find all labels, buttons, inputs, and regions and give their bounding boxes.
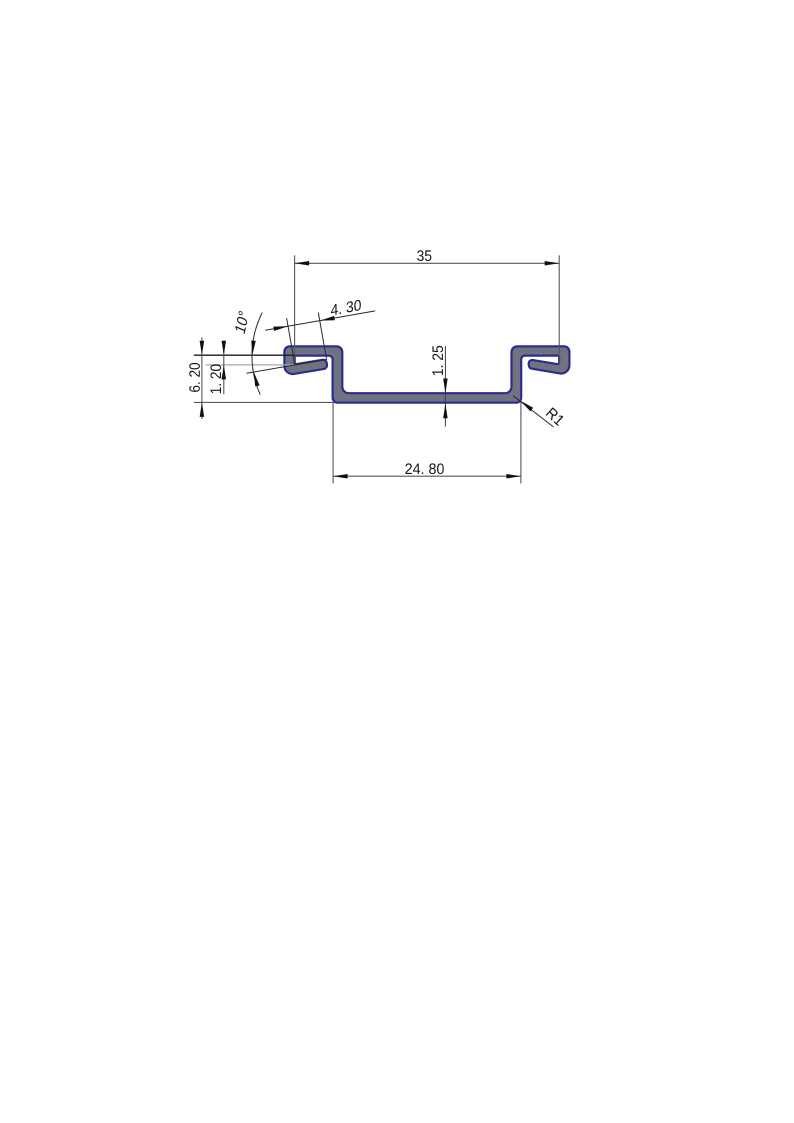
dimension line 24.80: [333, 475, 521, 477]
dimension text 1.25: [432, 346, 443, 375]
leader line R1: [513, 396, 554, 427]
dimension line 6.20: [201, 337, 203, 419]
dimension line 4.30: [265, 311, 375, 330]
arrowhead 1.20 top: [222, 341, 227, 356]
dimension text 10 deg: [235, 310, 249, 334]
extension line 24.80 right: [520, 401, 522, 484]
extension line 4.30 right: [318, 313, 326, 359]
extension line 35 right: [558, 255, 560, 364]
arrowhead 24.80 right: [506, 474, 521, 479]
arrowhead R1: [520, 401, 533, 412]
dimension text 6.20: [189, 363, 200, 392]
dimension line 35: [295, 262, 560, 264]
arrowhead angle top: [251, 341, 255, 356]
extension line 24.80 left: [332, 403, 334, 484]
arrowhead 4.30 right: [320, 316, 335, 321]
arrowhead 6.20 bottom: [200, 402, 205, 417]
arrowhead 24.80 left: [333, 474, 348, 479]
DIN rail profile cross-section (gray fill, blue outline): [284, 346, 569, 402]
extension line 4.30 left: [287, 318, 295, 364]
dimension line 1.20: [223, 341, 225, 395]
arrowhead 35 left: [295, 261, 310, 266]
arrowhead 6.20 top: [200, 341, 205, 356]
angle reference line 10 deg: [247, 359, 328, 373]
extension line lip root: [206, 364, 295, 366]
extension line rail bottom: [194, 401, 335, 403]
dimension text 35: [417, 250, 431, 261]
dimension text R1: [546, 407, 565, 426]
dimension text 24.80: [405, 463, 443, 474]
extension line 35 left: [294, 255, 296, 364]
arrowhead 1.20 bottom: [222, 365, 227, 380]
arrowhead 4.30 left: [273, 326, 288, 331]
arrowhead 1.25 bottom: [443, 404, 448, 419]
dimension text 4.30: [331, 299, 361, 315]
arrowhead angle bottom: [254, 372, 260, 387]
arrowhead 1.25 top: [443, 379, 448, 394]
arrowhead 35 right: [545, 261, 560, 266]
angular dimension arc 10 deg: [252, 313, 262, 395]
dimension text 1.20: [210, 364, 221, 393]
dimension line 1.25: [444, 346, 446, 427]
extension line flange underside: [194, 354, 295, 356]
